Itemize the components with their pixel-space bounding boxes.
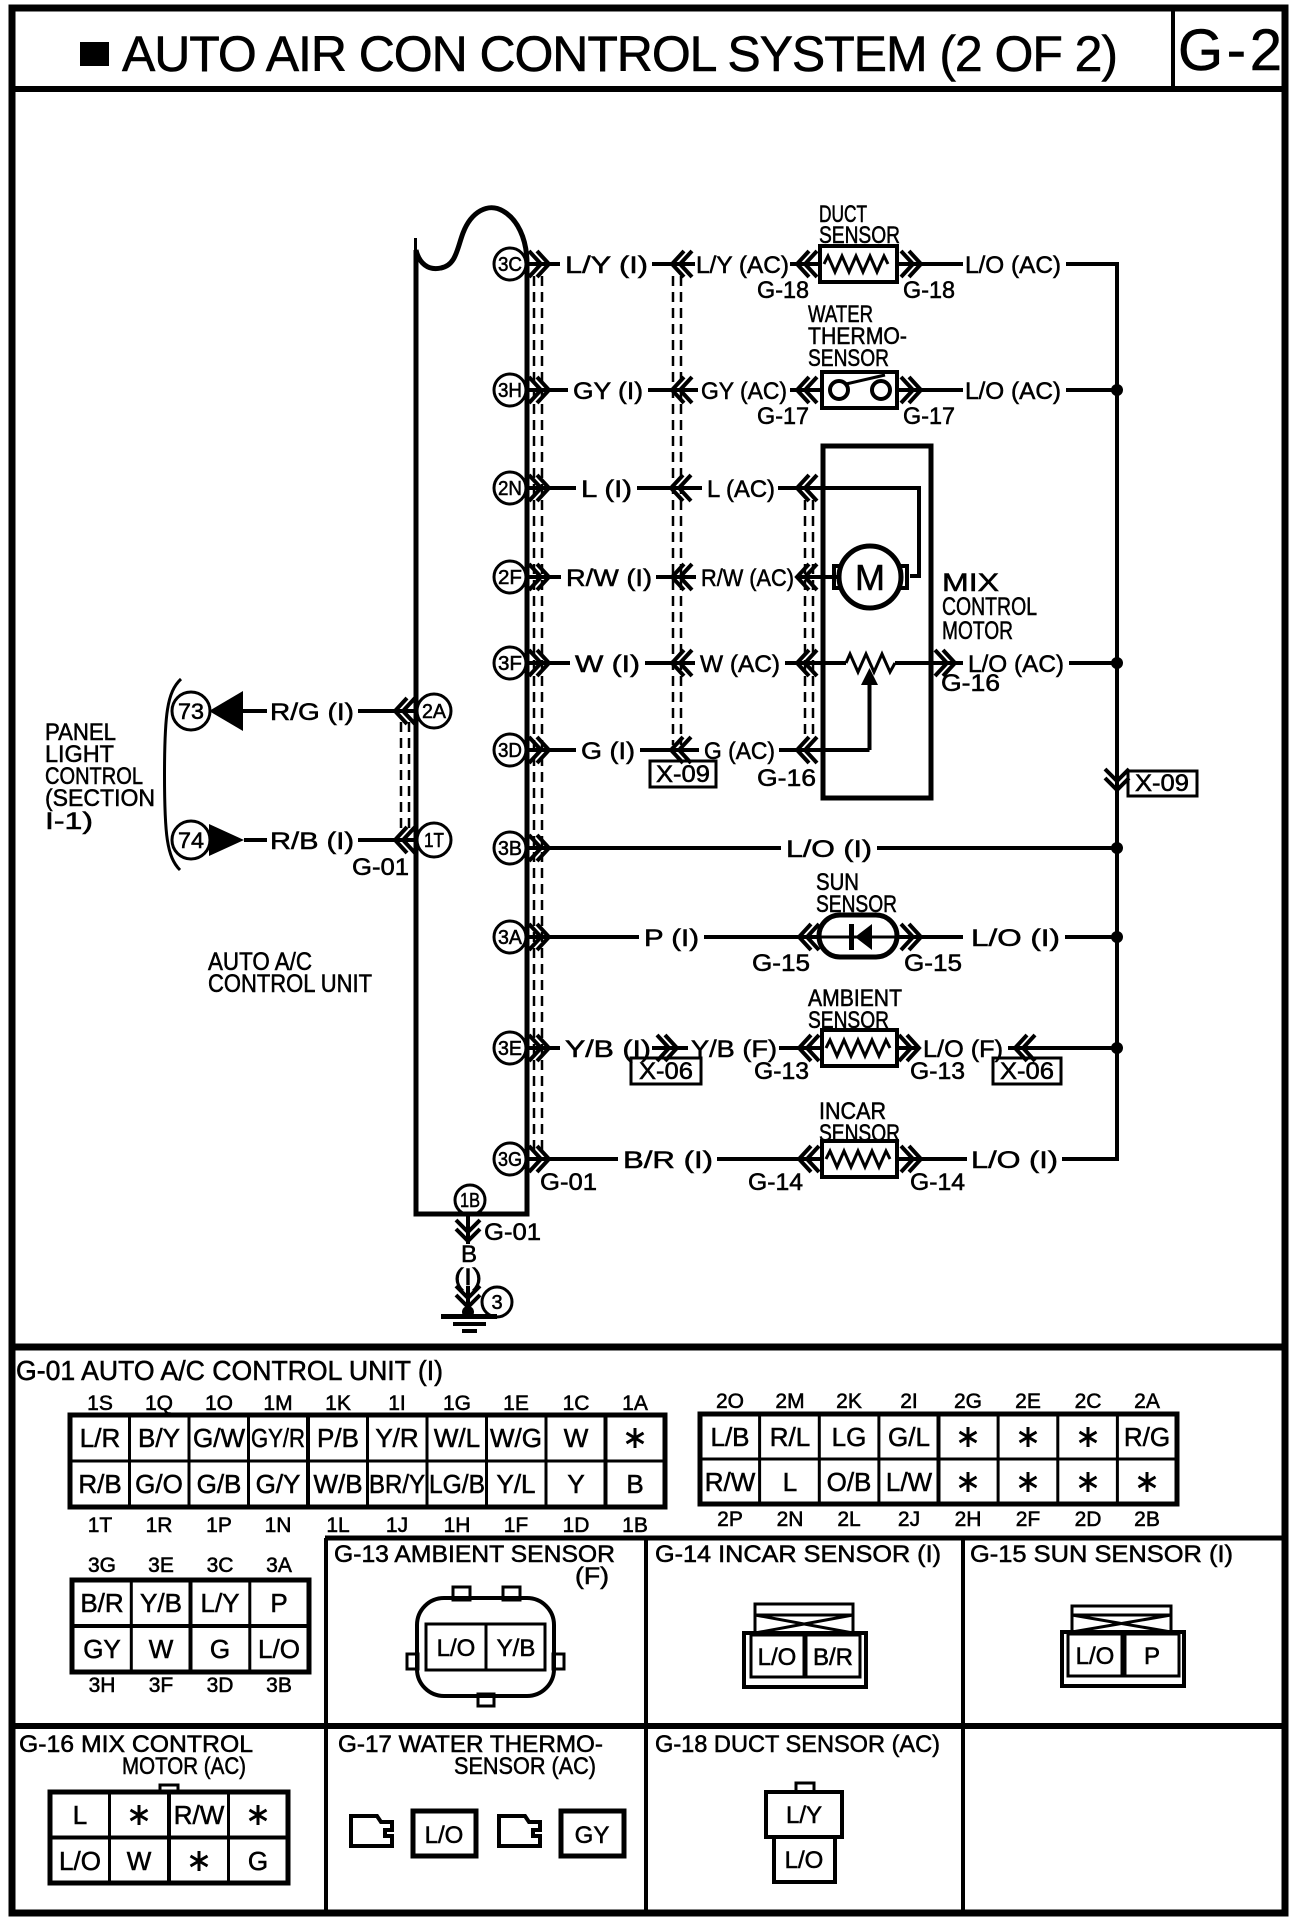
svg-text:R/L: R/L [770,1422,810,1452]
pin 3H [494,374,526,406]
svg-text:B/R: B/R [80,1588,123,1618]
node 74 [172,821,210,859]
svg-text:G-13 AMBIENT SENSOR: G-13 AMBIENT SENSOR [334,1541,615,1568]
right bus wire [1100,264,1117,1159]
svg-text:1F: 1F [504,1514,529,1537]
wire colours block 2 [705,1422,1170,1497]
svg-text:3H: 3H [89,1674,116,1697]
svg-text:B/R (I): B/R (I) [623,1147,713,1174]
connector icon G-17 a [351,1816,392,1846]
dashed harness column C [804,500,807,740]
wire [527,486,576,490]
svg-text:G-14: G-14 [748,1169,803,1196]
junction 3F [1111,657,1123,669]
svg-text:GY: GY [575,1822,610,1849]
wire [652,262,695,266]
svg-text:1G: 1G [443,1392,471,1415]
svg-text:MOTOR (AC): MOTOR (AC) [122,1753,246,1780]
pin 1T [417,823,451,857]
connector grid G-01 block 3 [72,1580,309,1672]
pin 3C [494,248,526,280]
svg-text:LG: LG [832,1422,867,1452]
pin 3A [494,921,526,953]
wire [790,262,820,266]
svg-text:1N: 1N [265,1514,292,1537]
pin 2F [494,561,526,593]
ground node 3 [482,1287,512,1317]
svg-text:LG/B: LG/B [429,1469,485,1499]
asterisk 1A [627,1428,644,1448]
svg-text:L/O (I): L/O (I) [971,1147,1058,1174]
svg-text:L/O: L/O [758,1644,797,1671]
wire [717,1157,822,1161]
svg-text:G-15 SUN SENSOR (I): G-15 SUN SENSOR (I) [970,1541,1233,1568]
svg-text:L/B: L/B [710,1422,749,1452]
svg-text:2L: 2L [837,1508,860,1531]
svg-text:X-06: X-06 [1000,1058,1054,1085]
connector G-13 drawing [407,1587,564,1706]
svg-text:3H: 3H [498,380,522,402]
wire 3C to sensor [527,262,560,266]
svg-text:M: M [855,557,885,598]
svg-text:1A: 1A [622,1392,648,1415]
svg-text:W (AC): W (AC) [700,651,780,678]
svg-text:G-15: G-15 [752,950,810,977]
svg-text:G-17: G-17 [903,403,955,430]
motor M [839,546,901,608]
svg-text:L/W: L/W [886,1467,933,1497]
asterisks block 2 [960,1427,1156,1492]
pot wiper arrow [868,685,872,750]
svg-text:Y/L: Y/L [496,1469,535,1499]
svg-text:1T: 1T [424,830,444,852]
title bullet square [80,42,109,66]
svg-text:CONTROL UNIT: CONTROL UNIT [208,970,372,998]
junction 3B [1111,842,1123,854]
svg-text:R/B: R/B [78,1469,121,1499]
svg-text:74: 74 [178,828,204,853]
svg-text:P (I): P (I) [644,925,699,952]
svg-text:G: G [248,1846,268,1876]
dashed harness column A [533,276,536,1150]
svg-text:2F: 2F [498,567,522,589]
connector G-14 drawing [744,1604,866,1687]
svg-text:W (I): W (I) [575,651,640,678]
svg-text:3G: 3G [88,1554,116,1577]
svg-text:G/L: G/L [888,1422,930,1452]
pin numbers top row 1 [87,1392,648,1415]
svg-text:R/W: R/W [174,1800,225,1830]
svg-text:1D: 1D [563,1514,590,1537]
svg-text:1H: 1H [444,1514,471,1537]
connector G-15 drawing [1062,1606,1184,1686]
svg-text:G-01: G-01 [352,854,409,881]
svg-text:B: B [626,1469,643,1499]
ground connector chevron [456,1286,480,1307]
svg-text:BR/Y: BR/Y [369,1469,425,1499]
ground wire down [466,1215,470,1244]
svg-text:3B: 3B [266,1674,292,1697]
svg-text:G: G [210,1634,230,1664]
junction 3E [1111,1042,1123,1054]
svg-text:1K: 1K [325,1392,351,1415]
svg-text:G-17: G-17 [757,403,809,430]
svg-text:W/L: W/L [434,1423,480,1453]
svg-text:2A: 2A [422,701,447,723]
dashed harness column B [672,276,675,745]
wire [527,1157,618,1161]
wire [527,935,639,939]
wire [656,575,696,579]
svg-text:X-09: X-09 [656,761,710,788]
svg-text:L/O: L/O [258,1634,300,1664]
svg-text:Y: Y [567,1469,584,1499]
svg-text:SENSOR: SENSOR [808,345,889,372]
svg-text:1T: 1T [88,1514,113,1537]
svg-text:1C: 1C [563,1392,590,1415]
svg-text:L/O (I): L/O (I) [786,836,872,863]
svg-text:W: W [149,1634,174,1664]
pin numbers top row 3 [88,1554,292,1577]
terminal box L/O [413,1811,476,1856]
wire [1065,935,1117,939]
bracket [165,679,182,870]
svg-text:2C: 2C [1075,1390,1102,1413]
svg-text:L/O: L/O [59,1846,101,1876]
svg-text:3D: 3D [498,740,522,762]
svg-text:G/B: G/B [197,1469,242,1499]
connector grid G-01 block 2 [700,1414,1177,1504]
svg-text:1B: 1B [622,1514,648,1537]
wire [527,1046,560,1050]
pin 2A [417,694,451,728]
svg-text:3F: 3F [149,1674,174,1697]
wire to pin 2A [358,709,416,713]
svg-text:GY (AC): GY (AC) [701,378,787,405]
connector grid G-01 block 1 [70,1415,665,1507]
svg-text:G-18: G-18 [757,277,809,304]
svg-text:G-16: G-16 [757,765,816,792]
svg-text:73: 73 [178,699,204,724]
svg-text:2M: 2M [775,1390,804,1413]
wire colours block 3 [80,1588,300,1664]
dashed harness 2A-1T [400,722,403,830]
svg-text:G-18: G-18 [903,277,955,304]
svg-text:3E: 3E [498,1038,522,1060]
svg-text:2O: 2O [716,1390,744,1413]
X-09 inline connector on right bus [1105,769,1129,790]
svg-text:2H: 2H [955,1508,982,1531]
svg-text:1S: 1S [87,1392,113,1415]
mix control motor outline [823,446,931,798]
wire [704,935,819,939]
svg-text:W/B: W/B [313,1469,362,1499]
svg-text:3A: 3A [498,927,523,949]
svg-text:GY/R: GY/R [251,1423,305,1453]
svg-text:R/G: R/G [1124,1422,1170,1452]
svg-text:R/W (I): R/W (I) [566,565,652,592]
svg-text:2F: 2F [1016,1508,1041,1531]
svg-text:G-13: G-13 [754,1058,809,1085]
svg-text:B/R: B/R [813,1644,853,1671]
pin 3B [494,832,526,864]
wire [637,486,702,490]
resistor incar sensor [822,1141,897,1177]
wire [243,709,267,713]
pin numbers bottom row 3 [89,1674,292,1697]
svg-text:(F): (F) [575,1563,609,1590]
svg-text:X-09: X-09 [1135,770,1189,797]
pin 3F [494,647,526,679]
svg-text:1J: 1J [386,1514,408,1537]
wire [779,1046,822,1050]
svg-text:G-01: G-01 [540,1169,597,1196]
wire [1066,262,1104,266]
svg-text:1P: 1P [206,1514,232,1537]
svg-text:L/Y (I): L/Y (I) [565,252,648,279]
svg-text:AUTO AIR CON CONTROL SYSTEM (2: AUTO AIR CON CONTROL SYSTEM (2 OF 2) [122,26,1118,82]
svg-text:W/G: W/G [490,1423,542,1453]
wire [648,388,698,392]
svg-text:B/Y: B/Y [138,1423,180,1453]
svg-text:1M: 1M [263,1392,292,1415]
svg-text:L/O (AC): L/O (AC) [965,378,1061,405]
svg-text:I-1): I-1) [45,808,93,835]
wire [790,388,822,392]
svg-text:L/O: L/O [425,1822,464,1849]
svg-text:2J: 2J [898,1508,920,1531]
G-2 box divider [1171,8,1175,89]
wire [645,661,695,665]
svg-text:W: W [127,1846,152,1876]
wire [527,575,561,579]
svg-text:MOTOR: MOTOR [942,617,1013,645]
svg-text:Y/R: Y/R [375,1423,418,1453]
title bar bottom line [9,86,1288,92]
svg-text:R/W (AC): R/W (AC) [701,565,794,592]
section divider lines [325,1536,1285,1541]
wire sensor to bus [897,935,963,939]
node 73 [172,692,210,730]
svg-text:L/O: L/O [437,1635,476,1662]
svg-text:L (AC): L (AC) [707,476,775,503]
svg-text:2E: 2E [1015,1390,1041,1413]
svg-text:L (I): L (I) [581,476,632,503]
svg-text:3C: 3C [207,1554,234,1577]
wire sensor to bus [897,262,963,266]
svg-text:L/O (AC): L/O (AC) [968,651,1064,678]
wire [527,661,570,665]
ground symbol [462,1306,474,1318]
svg-text:L/R: L/R [80,1423,120,1453]
X-09 inline connector label [650,761,716,787]
pin 3D [494,734,526,766]
wire to wiper [779,748,870,752]
wire [244,838,267,842]
svg-text:G-15: G-15 [904,950,962,977]
svg-text:G/O: G/O [135,1469,183,1499]
svg-text:G/Y: G/Y [256,1469,301,1499]
wire with label L/O (I) [527,846,781,850]
wire to potentiometer [785,661,846,665]
svg-text:3G: 3G [498,1149,522,1171]
connector G-18 drawing [766,1783,842,1882]
arrow left (to 73) [209,691,243,731]
wire pot to bus [895,661,963,665]
wire [1062,1157,1113,1161]
pin 2N [494,472,526,504]
pin numbers top row 2 [716,1390,1160,1413]
wire [640,748,699,752]
pin 3G [494,1143,526,1175]
svg-text:P: P [1144,1643,1160,1670]
svg-text:L/O (F): L/O (F) [923,1036,1003,1063]
svg-text:2D: 2D [1075,1508,1102,1531]
svg-text:L/O (AC): L/O (AC) [965,252,1061,279]
wire [527,388,568,392]
svg-text:Y/B: Y/B [140,1588,182,1618]
svg-text:L/Y (AC): L/Y (AC) [696,252,789,279]
auto A/C control unit box outline with squiggle top [416,208,527,1214]
arrow right (from 74) [209,824,244,856]
pin 3E [494,1032,526,1064]
resistor ambient sensor [822,1030,897,1066]
svg-text:3C: 3C [498,254,522,276]
svg-text:O/B: O/B [827,1467,872,1497]
wire [527,748,576,752]
wire colours row 1 [78,1423,643,1499]
svg-text:1Q: 1Q [145,1392,173,1415]
svg-text:2P: 2P [717,1508,743,1531]
svg-text:X-06: X-06 [639,1058,693,1085]
potentiometer resistor [846,654,895,672]
terminal box GY [561,1811,624,1856]
svg-text:3F: 3F [498,653,522,675]
svg-text:1R: 1R [146,1514,173,1537]
svg-text:W: W [564,1423,589,1453]
thermo switch [822,372,897,408]
svg-text:1I: 1I [388,1392,406,1415]
wire sensor to bus [897,388,963,392]
svg-text:G-14 INCAR SENSOR (I): G-14 INCAR SENSOR (I) [655,1541,941,1568]
svg-text:R/B (I): R/B (I) [270,828,354,855]
junction 3H [1111,384,1123,396]
pin numbers bottom row 2 [717,1508,1160,1531]
svg-text:G-01: G-01 [484,1219,541,1246]
svg-text:1B: 1B [460,1190,480,1212]
svg-text:1L: 1L [326,1514,349,1537]
wire [1066,388,1117,392]
svg-text:SENSOR (AC): SENSOR (AC) [454,1753,596,1780]
connector G-16 grid [50,1785,288,1883]
svg-text:1O: 1O [205,1392,233,1415]
svg-text:1E: 1E [503,1392,529,1415]
svg-text:L: L [73,1800,87,1830]
svg-text:L/O: L/O [785,1847,824,1874]
svg-text:L/O: L/O [1076,1643,1115,1670]
svg-text:GY (I): GY (I) [573,378,643,405]
inline connector chevron G-01 [456,1220,480,1241]
svg-text:L: L [783,1467,797,1497]
svg-text:R/W: R/W [705,1467,756,1497]
svg-text:3A: 3A [266,1554,292,1577]
svg-text:2B: 2B [1134,1508,1160,1531]
svg-text:G-18 DUCT SENSOR (AC): G-18 DUCT SENSOR (AC) [655,1731,940,1758]
wire to pin 1T [358,838,416,842]
sun sensor photodiode [819,915,897,957]
X-06 label right [993,1058,1061,1084]
svg-text:R/G (I): R/G (I) [270,699,354,726]
svg-text:L/O (I): L/O (I) [971,925,1060,952]
wire [897,1046,920,1050]
svg-text:G-2: G-2 [1178,18,1282,83]
wire [1069,661,1117,665]
wire to motor [796,575,838,579]
junction 3A [1111,931,1123,943]
X-06 chevron right [652,1046,688,1050]
X-06 label left [631,1058,701,1084]
svg-text:2N: 2N [498,478,522,500]
svg-text:3B: 3B [498,838,522,860]
svg-text:G (I): G (I) [581,738,635,765]
svg-text:GY: GY [83,1634,121,1664]
svg-text:Y/B: Y/B [497,1635,536,1662]
svg-text:G-01 AUTO A/C CONTROL UNIT (I): G-01 AUTO A/C CONTROL UNIT (I) [16,1355,443,1386]
svg-text:L/Y: L/Y [786,1802,822,1829]
separator line [9,1344,1288,1351]
svg-text:2N: 2N [777,1508,804,1531]
connector icon G-17 b [499,1816,540,1846]
pin 1B [455,1185,485,1215]
svg-text:3: 3 [491,1292,502,1314]
wire with X-06 chevron left [1008,1046,1117,1050]
svg-text:L/Y: L/Y [200,1588,239,1618]
svg-text:G/W: G/W [193,1423,245,1453]
svg-text:G-14: G-14 [910,1169,965,1196]
resistor duct sensor [820,246,897,282]
svg-text:2G: 2G [954,1390,982,1413]
pin numbers bottom row 1 [88,1514,648,1537]
svg-text:P/B: P/B [317,1423,359,1453]
wire into motor box, down to motor [778,488,919,576]
svg-text:2A: 2A [1134,1390,1160,1413]
svg-text:2K: 2K [836,1390,862,1413]
svg-text:3D: 3D [207,1674,234,1697]
svg-text:3E: 3E [148,1554,174,1577]
wire [897,1157,967,1161]
svg-text:2I: 2I [900,1390,918,1413]
svg-text:P: P [270,1588,287,1618]
